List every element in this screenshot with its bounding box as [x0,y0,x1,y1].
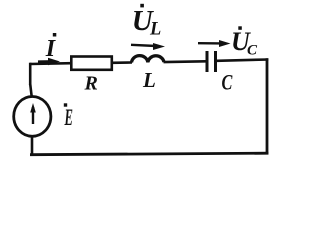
current arrow tail on wire [38,60,52,63]
U_L label dot [140,4,144,8]
resistor R1 body [71,57,112,70]
source arrow shaft [32,107,34,124]
U_C label dot [238,26,242,30]
current label dot [53,33,57,37]
wire inductor-to-capacitor [164,60,207,63]
svg-text:E: E [64,105,73,131]
svg-text:C: C [247,42,258,58]
source label dot [64,103,67,106]
svg-text:C: C [222,71,234,95]
capacitor C1 left plate [206,51,209,72]
inductor L1 humps [132,56,165,63]
svg-text:L: L [149,20,161,40]
source arrowhead [30,103,36,113]
wire top-left segment [30,62,71,65]
svg-text:R: R [84,72,98,94]
wire left side top-to-source [29,63,32,85]
svg-text:L: L [142,68,156,92]
source E1 circle [14,97,51,137]
current arrowhead on wire [48,58,60,65]
svg-text:I: I [45,36,57,62]
capacitor C1 right plate [214,51,217,72]
U_L arrow [131,45,156,46]
wire right side down [266,58,269,154]
wire capacitor-to-corner [217,60,268,61]
wire resistor-to-inductor [112,61,132,64]
wire source-to-bottom [31,136,34,155]
U_C arrow [198,42,222,45]
wire bottom [30,153,268,155]
